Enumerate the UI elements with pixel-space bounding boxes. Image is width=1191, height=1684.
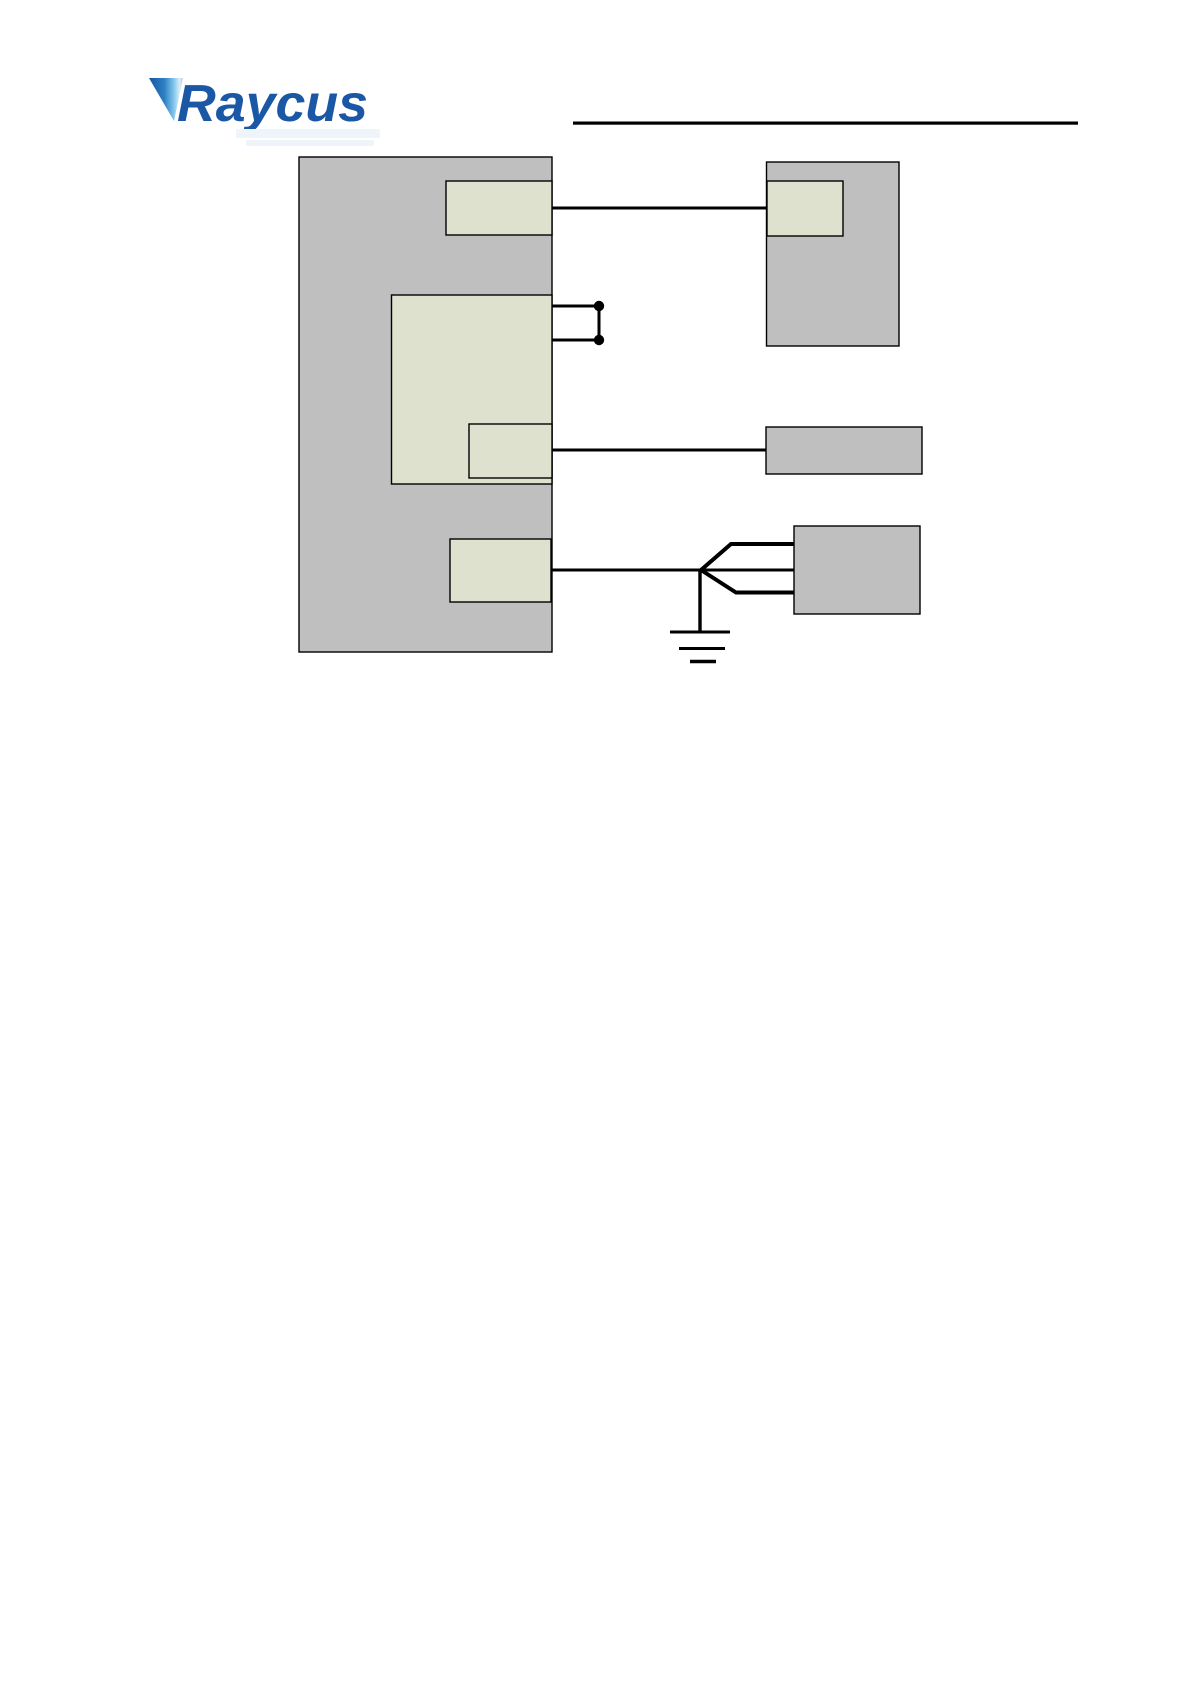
svg-text:Raycus: Raycus — [177, 75, 368, 133]
